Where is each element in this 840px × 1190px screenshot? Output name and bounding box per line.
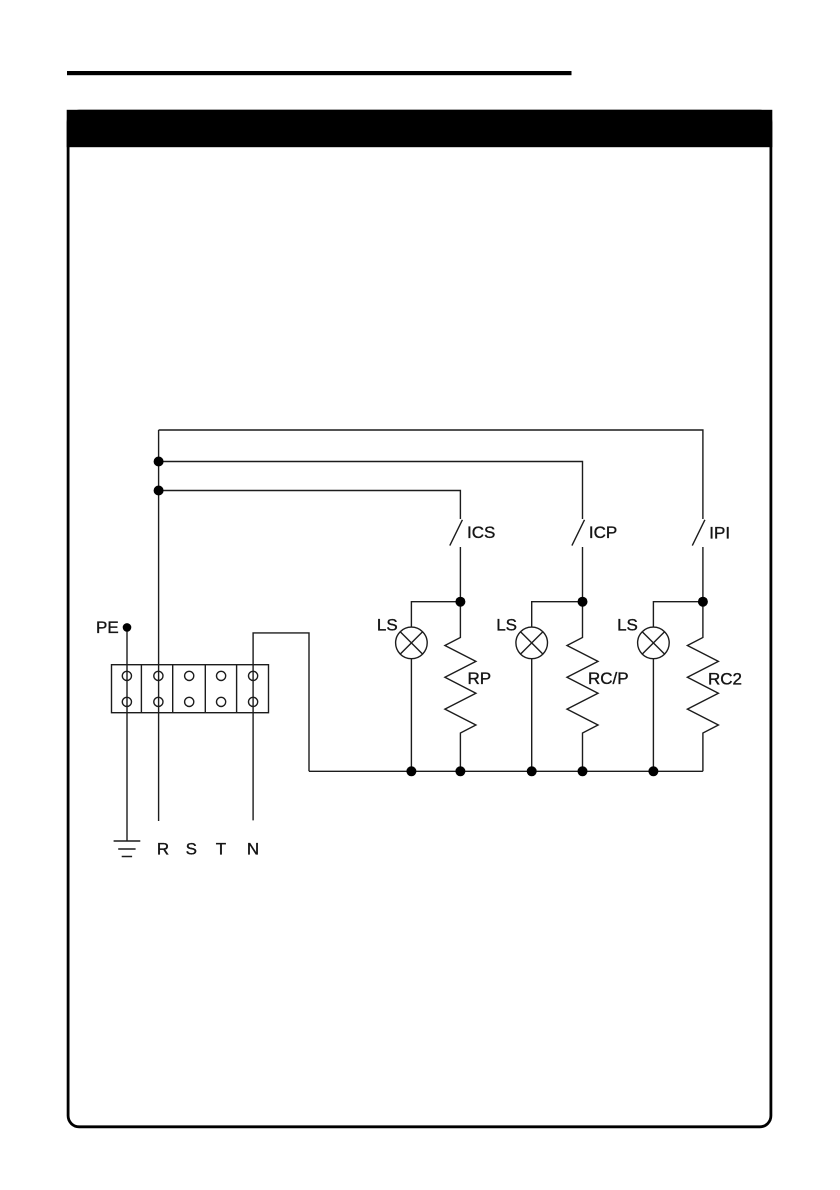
svg-text:IPI: IPI	[709, 524, 730, 543]
svg-text:PE: PE	[96, 618, 119, 637]
svg-text:LS: LS	[496, 616, 517, 635]
wire: ICS lower lead	[459, 547, 461, 602]
node ICP out	[578, 597, 588, 607]
wire: top rail L1	[159, 430, 703, 519]
node bus lamp3	[648, 766, 658, 776]
wire: N riser	[253, 633, 309, 771]
wire: lamp 2 return	[531, 659, 533, 772]
resistor RC2	[687, 602, 718, 772]
resistor RC/P	[567, 602, 598, 772]
svg-text:ICP: ICP	[589, 523, 617, 542]
title underline	[67, 71, 572, 75]
svg-text:RC/P: RC/P	[588, 669, 629, 688]
node PE	[123, 623, 132, 632]
wire: IPI lower lead	[702, 547, 704, 602]
wire: lamp 3 return	[652, 659, 654, 772]
svg-text:LS: LS	[617, 616, 638, 635]
header bar	[67, 110, 773, 147]
lamp LS3	[638, 627, 670, 659]
svg-text:T: T	[216, 840, 226, 859]
wire: neutral bus	[309, 770, 703, 772]
lamp LS1	[396, 627, 428, 659]
svg-text:R: R	[157, 840, 169, 859]
svg-text:ICS: ICS	[467, 523, 495, 542]
wire: R phase vertical	[158, 430, 160, 821]
outer frame	[68, 111, 771, 1127]
node L3 junction	[154, 486, 164, 496]
node IPI out	[698, 597, 708, 607]
svg-text:N: N	[247, 840, 259, 859]
wire: lamp 2 feed	[532, 602, 583, 628]
node L2 junction	[154, 457, 164, 467]
node bus lamp2	[527, 766, 537, 776]
ground	[114, 841, 141, 857]
switch ICP blade	[572, 520, 585, 546]
node ICS out	[455, 597, 465, 607]
node bus lamp1	[406, 766, 416, 776]
svg-text:RC2: RC2	[708, 670, 742, 689]
wire: rail L2	[159, 462, 583, 520]
lamp LS2	[516, 627, 548, 659]
wire: lamp 1 return	[410, 659, 412, 772]
node bus RP	[455, 766, 465, 776]
wire: ICP lower lead	[582, 547, 584, 602]
wire: PE drop	[126, 627, 128, 841]
svg-text:RP: RP	[468, 669, 492, 688]
resistor RP	[445, 602, 476, 772]
svg-text:S: S	[186, 840, 197, 859]
terminal block	[112, 665, 269, 713]
node bus RC/P	[578, 766, 588, 776]
switch ICS blade	[450, 520, 463, 546]
switch IPI blade	[692, 520, 705, 546]
wire: N below block	[252, 665, 254, 821]
svg-text:LS: LS	[377, 616, 398, 635]
wire: lamp 3 feed	[653, 602, 703, 628]
wire: rail L3	[159, 491, 461, 520]
wire: lamp 1 feed	[411, 602, 460, 628]
